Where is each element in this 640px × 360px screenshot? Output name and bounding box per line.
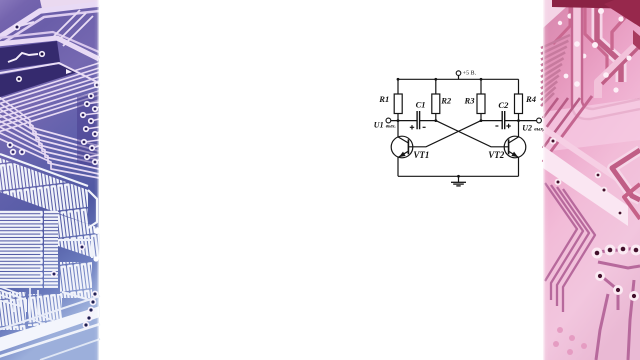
svg-text:U2: U2 (522, 124, 532, 133)
svg-text:R2: R2 (440, 95, 452, 105)
svg-text:U1: U1 (374, 121, 384, 130)
svg-text:VT2: VT2 (488, 150, 505, 160)
svg-text:вых.: вых. (386, 123, 396, 129)
svg-text:C2: C2 (498, 100, 509, 110)
svg-text:+5 В.: +5 В. (463, 71, 477, 77)
svg-text:VT1: VT1 (413, 150, 429, 160)
svg-text:R3: R3 (463, 95, 475, 105)
svg-text:R4: R4 (525, 94, 537, 104)
svg-text:R1: R1 (378, 94, 389, 104)
svg-text:C1: C1 (416, 99, 426, 109)
svg-text:вых.: вых. (534, 127, 544, 133)
